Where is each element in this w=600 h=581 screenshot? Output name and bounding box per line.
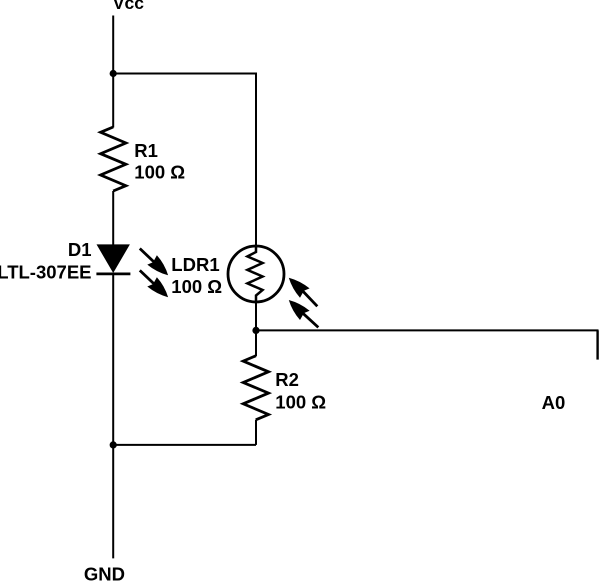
wire down to GND	[112, 445, 114, 559]
svg-text:LTL-307EE: LTL-307EE	[0, 262, 92, 283]
LDR incident arrow 1	[289, 278, 318, 307]
svg-text:R1: R1	[134, 140, 158, 161]
svg-text:LDR1: LDR1	[171, 254, 219, 275]
svg-text:100 Ω: 100 Ω	[275, 391, 326, 412]
resistor R2	[243, 356, 268, 420]
LED D1 cathode bar	[96, 272, 130, 275]
wire LED cathode down to bottom junction	[112, 274, 114, 446]
svg-text:GND: GND	[84, 563, 125, 581]
svg-text:Vcc: Vcc	[113, 0, 144, 13]
junction top (VCC node)	[110, 70, 117, 77]
svg-text:100 Ω: 100 Ω	[134, 162, 185, 183]
wire middle junction to R2	[255, 330, 257, 356]
junction bottom (GND node)	[110, 441, 117, 448]
LDR incident arrow 2	[289, 300, 319, 327]
wire top horizontal junction to LDR branch	[113, 73, 257, 75]
svg-text:D1: D1	[68, 239, 92, 260]
wire LDR bottom to middle junction	[255, 303, 257, 331]
wire bottom horizontal	[113, 444, 256, 446]
svg-text:A0: A0	[542, 392, 566, 413]
svg-text:100 Ω: 100 Ω	[171, 276, 222, 297]
LED emission arrow 1	[140, 248, 168, 275]
wire R1 bottom to LED anode	[112, 191, 114, 246]
svg-text:R2: R2	[275, 369, 299, 390]
wire middle junction to A0 stub	[256, 329, 599, 331]
wire VCC to junction and down to R1	[112, 16, 114, 128]
junction middle (divider node)	[252, 327, 259, 334]
wire R2 bottom to bottom junction wire	[255, 420, 257, 445]
LED emission arrow 2	[140, 270, 168, 297]
photoresistor LDR1 zigzag	[247, 245, 262, 303]
LED D1 triangle	[98, 245, 129, 271]
wire A0 terminal stub	[596, 330, 598, 359]
photoresistor LDR1 circle	[228, 246, 284, 302]
wire right branch down to LDR top	[255, 74, 257, 246]
resistor R1	[101, 127, 126, 191]
